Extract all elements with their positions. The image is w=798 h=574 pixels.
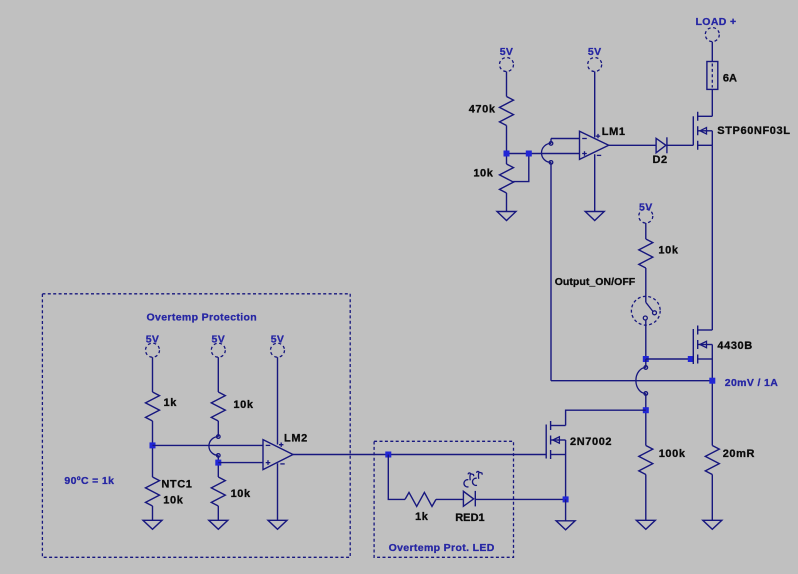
svg-text:NTC1: NTC1 [161,479,192,491]
svg-text:Overtemp Protection: Overtemp Protection [147,311,258,323]
svg-text:2N7002: 2N7002 [570,436,612,448]
wire LED to junction [475,498,565,500]
wire LM2 out to 2N7002 gate [293,454,546,456]
resistor 10k col B [211,392,225,421]
svg-text:10k: 10k [233,399,253,411]
wire LM1 out to D2 [609,144,656,146]
svg-text:D2: D2 [653,154,668,166]
svg-text:10k: 10k [163,495,183,507]
op-amp U1 LM1 [580,131,609,159]
svg-text:10k: 10k [473,168,493,180]
svg-text:Overtemp Prot. LED: Overtemp Prot. LED [389,542,495,554]
wire 2N7002 source down [565,455,567,500]
wire LM1 V- to ground [594,154,596,211]
svg-text:5V: 5V [146,334,160,346]
dashed box Overtemp Prot. LED [374,441,513,557]
wire 4430B source down [711,359,713,446]
5V port col A [146,343,160,357]
5V port col B [211,343,225,357]
wire col B down with hop [217,421,219,437]
wire to ground [565,499,567,520]
svg-text:1k: 1k [164,397,178,409]
resistor 1k [146,392,160,421]
wire sense row 20mV/1A [551,380,712,382]
wire Q1 source rail down [711,145,713,330]
svg-text:Output_ON/OFF: Output_ON/OFF [555,276,636,288]
svg-text:LM2: LM2 [284,432,308,444]
resistor 1k LED [405,492,436,506]
svg-text:5V: 5V [212,334,226,346]
wire row A to LM2 minus [153,444,264,446]
svg-text:5V: 5V [639,202,653,214]
svg-text:5V: 5V [500,46,514,58]
svg-text:1k: 1k [415,511,429,523]
wire to 10k [645,223,647,239]
junction col A [150,442,156,448]
op-amp U2 LM2 [263,440,293,470]
node LOAD+ port [705,28,719,42]
transistor Q1 STP60NF03L [693,112,712,150]
wire switch to junction [645,320,647,359]
LED arrows [464,471,482,486]
resistor 100k [639,446,653,475]
wire row B to LM2 plus [218,462,263,464]
wire sense line down with hop [550,139,552,144]
svg-text:470k: 470k [469,103,496,115]
svg-text:4430B: 4430B [717,340,752,352]
resistor 10k middle [639,239,653,268]
junction at wiper [526,151,532,157]
thermistor NTC1 10k [146,477,160,506]
ground below LM1 [585,212,604,221]
wire load to fuse [711,42,713,62]
svg-text:STP60NF03L: STP60NF03L [717,125,790,137]
wire fuse to Q1 drain [711,89,713,116]
wire LM1 minus input [551,138,580,140]
pot wiper wire [513,154,529,182]
junction col B [215,460,221,466]
wire 5V to LM1 V+ [594,72,596,138]
5V port for 470k [500,58,514,72]
wire D2 to Q1 gate [667,144,693,146]
svg-text:10k: 10k [231,488,251,500]
wire 470k to junction [506,126,508,165]
wire 10k to switch [645,268,647,302]
diode D2 [656,138,666,153]
svg-text:90ºC = 1k: 90ºC = 1k [64,475,114,487]
wire to 4430B gate [646,358,694,360]
svg-text:LM1: LM1 [602,126,626,138]
transistor Q3 2N7002 [546,421,565,459]
junction at 470k/10k [504,151,510,157]
svg-text:5V: 5V [271,334,285,346]
svg-text:RED1: RED1 [455,512,485,524]
junction at 4430B gate [688,356,694,362]
LED RED1 [463,491,473,506]
junction drain link [643,407,649,413]
junction LED/source [563,496,569,502]
svg-text:20mR: 20mR [723,448,755,460]
svg-text:6A: 6A [723,72,737,84]
dashed box Overtemp Protection [42,294,350,558]
potentiometer 10k [500,164,514,193]
5V port col C [271,343,285,357]
wire 5V to R 470k [506,72,508,97]
junction LED branch [385,452,391,458]
fuse F1 6A [707,62,718,90]
transistor Q2 4430B [693,326,712,365]
svg-text:20mV / 1A: 20mV / 1A [725,377,778,389]
junction switch/gate [643,356,649,362]
5V port middle [639,209,653,223]
wire divider row to LM1 plus input [507,153,580,155]
svg-text:LOAD +: LOAD + [696,16,737,28]
wire pot to ground [506,193,508,212]
5V port for LM1 [588,58,602,72]
resistor 20mR [705,446,719,475]
ground below pot [497,212,516,221]
svg-text:10k: 10k [658,244,678,256]
wire middle column down with hop [645,359,647,368]
svg-text:5V: 5V [588,46,602,58]
wire down to LED row [388,455,405,500]
resistor 10k col B lower [211,477,225,506]
svg-text:100k: 100k [659,448,686,460]
resistor 470k [500,97,514,126]
wire drain link to 2N7002 [566,410,646,425]
junction sense at right rail [709,378,715,384]
wire 1k to LED [436,498,463,500]
switch S1 [631,296,660,325]
